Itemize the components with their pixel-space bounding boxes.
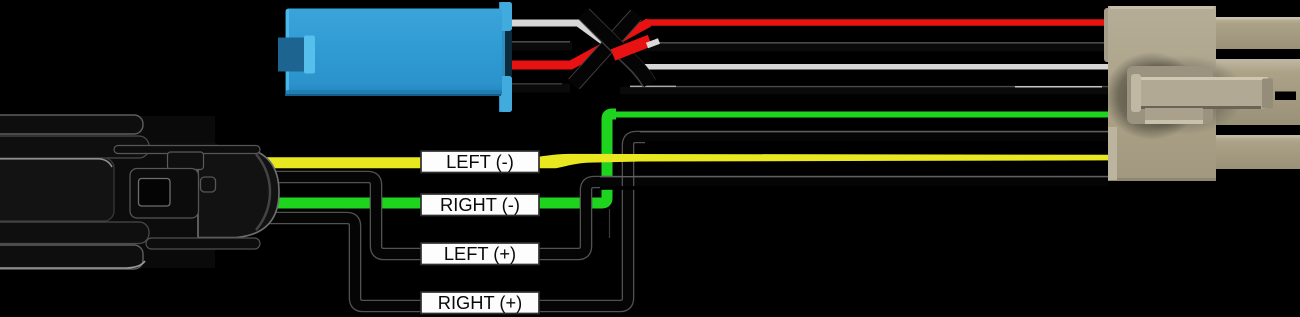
J3 latch arm top highlight <box>1140 77 1268 80</box>
wire red from blue connector (crossover) <box>505 23 649 66</box>
connector J3 tan 8-pin (right) <box>1104 6 1300 181</box>
J3 latch arm tip <box>1262 79 1273 109</box>
wire green RIGHT(-) thin right run <box>612 112 1108 118</box>
J2 left tab dark <box>278 38 306 72</box>
J3 body <box>1108 6 1216 181</box>
wire black B1 bright highlight near connector <box>1015 86 1102 88</box>
wire black B1 right run <box>620 87 1108 95</box>
J3 latch arm <box>1135 77 1273 109</box>
svg-text:LEFT (+): LEFT (+) <box>444 243 516 264</box>
wire black RIGHT(+) bottom edge cover <box>645 141 1108 145</box>
J3 tab1 <box>1212 17 1300 49</box>
wire green RIGHT(-) from black connector to 8-pin pin5 <box>240 114 616 203</box>
wire black B1 left run top highlight <box>505 41 570 43</box>
wire black LEFT(+) right run top highlight <box>600 176 1108 178</box>
J1 latch inner left <box>139 179 171 207</box>
J1 main block top highlight <box>0 159 112 167</box>
crossover black X up bar outline <box>574 15 636 84</box>
crossover white highlight fragment <box>647 41 659 46</box>
J3 body left light strip <box>1108 127 1117 180</box>
J1 bottom right ridge <box>146 238 260 249</box>
crossover black X down bar <box>583 13 650 84</box>
J3 latch back plate <box>1127 66 1213 124</box>
wire black B1 right run top highlight bright <box>630 85 676 87</box>
J3 body bottom highlight <box>1110 178 1216 181</box>
J1 neck <box>110 142 220 238</box>
J3 latch arm under shadow <box>1141 106 1261 109</box>
J1 bottom rib 2 <box>0 245 143 269</box>
J1 silhouette base <box>0 116 215 268</box>
J1 nose capsule <box>198 147 279 238</box>
J3 tab3 <box>1212 135 1300 169</box>
connector J2 blue 4-pin (top) <box>278 2 512 112</box>
wire black B1 right run top highlight <box>676 86 1108 88</box>
crossover black X up bar <box>573 14 637 85</box>
label box LEFT(+) <box>421 243 539 265</box>
J2 body bottom dark line <box>285 94 501 96</box>
J3 tab2 slot <box>1275 92 1296 101</box>
J2 flange dark mid <box>505 31 512 76</box>
crossover red fragment lower right of X <box>613 41 650 56</box>
wire black RIGHT(+) outline <box>240 137 1108 306</box>
wire black B2 right run top highlight <box>645 42 1108 44</box>
svg-text:RIGHT (+): RIGHT (+) <box>438 292 522 313</box>
wire black B1 left run <box>505 42 572 51</box>
J2 body <box>286 9 503 97</box>
wire black RIGHT(+) right run top highlight <box>640 131 1108 133</box>
wire black B2 left run top highlight <box>505 83 562 85</box>
wire black LEFT(+) bottom edge cover <box>600 186 1108 190</box>
label box LEFT(-) <box>421 151 539 173</box>
wire black LEFT(+) outline <box>240 177 1108 254</box>
J2 flange bottom tab <box>500 76 512 112</box>
label box RIGHT(-) <box>421 194 539 216</box>
svg-text:LEFT (-): LEFT (-) <box>446 151 514 172</box>
wire black LEFT(+) <box>240 177 1108 254</box>
J2 left tab light bar <box>304 36 315 74</box>
J3 latch foot <box>1145 108 1203 124</box>
wire black B2 left run <box>505 84 570 93</box>
wire yellow LEFT(-) <box>240 154 1108 168</box>
J3 latch shadow <box>1104 52 1200 140</box>
J3 latch shadow wide <box>1125 55 1245 135</box>
J3 latch arm left bar <box>1131 74 1141 112</box>
J1 main block <box>0 158 114 221</box>
J2 body bottom shadow <box>286 90 503 96</box>
J3 body top highlight <box>1110 6 1214 9</box>
label box RIGHT(+) <box>421 292 539 314</box>
wire red thin right run <box>645 19 1108 26</box>
J1 nose curvature highlight <box>256 154 270 230</box>
shadow stub below green vertical <box>609 209 611 238</box>
J1 latch outer <box>130 169 199 219</box>
J2 flange back bar <box>499 2 507 112</box>
J1 top rib 2 <box>0 136 149 158</box>
J1 top right ridge <box>114 146 260 154</box>
connector J1 black 4-pin (left) <box>0 115 279 269</box>
J2 flange top tab <box>500 2 512 31</box>
J3 tab2 <box>1212 59 1300 125</box>
J1 top rib 1 <box>0 115 143 134</box>
J1 latch top bar <box>168 152 204 170</box>
svg-text:RIGHT (-): RIGHT (-) <box>440 194 520 215</box>
wire black RIGHT(+) <box>240 137 1108 306</box>
J1 bottom edge highlight <box>0 261 145 268</box>
wire black B2 right run <box>630 43 1108 51</box>
wire white from blue connector (crossover) <box>505 23 638 67</box>
wire white thin right run <box>634 64 1108 70</box>
J1 nose inner tab <box>201 177 216 192</box>
J3 latch foot bottom highlight <box>1145 120 1203 124</box>
crossover black X down bar outline <box>584 14 649 83</box>
J3 left small tab upper <box>1104 8 1118 62</box>
J1 bottom rib 1 <box>0 222 149 244</box>
